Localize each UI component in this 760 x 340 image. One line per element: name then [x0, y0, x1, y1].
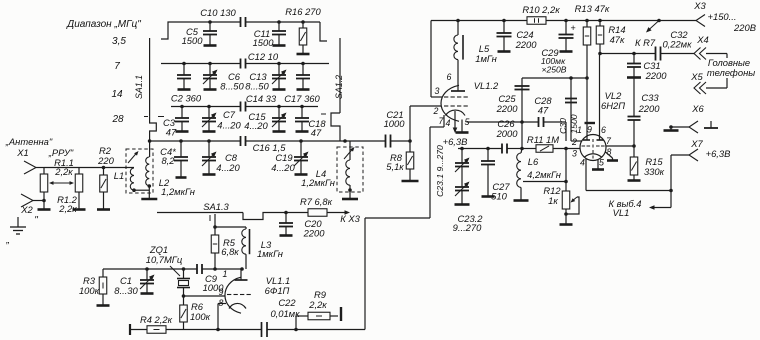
svg-text:510: 510 — [491, 191, 507, 202]
svg-text:47к: 47к — [610, 34, 625, 45]
svg-text:X1: X1 — [16, 147, 28, 158]
svg-text:К R7: К R7 — [635, 37, 656, 48]
svg-text:SA1.2: SA1.2 — [334, 75, 344, 99]
svg-text:2200: 2200 — [638, 103, 661, 114]
svg-text:+150...: +150... — [708, 11, 737, 22]
svg-text:Х5: Х5 — [690, 71, 703, 82]
svg-text:телефоны: телефоны — [707, 67, 755, 78]
svg-text:R4 2,2к: R4 2,2к — [140, 314, 173, 325]
svg-text:47: 47 — [538, 105, 549, 116]
svg-text:6Ф1П: 6Ф1П — [265, 285, 290, 296]
svg-text:R7 6,8к: R7 6,8к — [300, 196, 333, 207]
svg-text:Х6: Х6 — [691, 103, 704, 114]
svg-text:47: 47 — [166, 127, 177, 138]
svg-text:8: 8 — [219, 298, 224, 308]
svg-text:28: 28 — [111, 114, 124, 125]
svg-text:4: 4 — [446, 118, 451, 128]
svg-text:10,7МГц: 10,7МГц — [146, 254, 183, 265]
svg-text:2200: 2200 — [645, 70, 668, 81]
svg-text:SA1.3: SA1.3 — [203, 201, 229, 212]
svg-text:100к: 100к — [190, 311, 211, 322]
svg-text:C23.1 9...270: C23.1 9...270 — [435, 145, 445, 197]
svg-text:8...30: 8...30 — [114, 285, 138, 296]
svg-text:": " — [34, 215, 38, 226]
svg-text:220В: 220В — [733, 22, 756, 33]
svg-text:R11 1М: R11 1М — [527, 134, 559, 145]
svg-text:4: 4 — [580, 158, 585, 168]
svg-text:R16 270: R16 270 — [285, 6, 321, 17]
svg-text:1000: 1000 — [384, 118, 406, 129]
svg-text:1,2мкГн: 1,2мкГн — [161, 186, 195, 197]
svg-text:К X3: К X3 — [340, 213, 360, 224]
svg-text:Диапазон „МГц": Диапазон „МГц" — [66, 19, 141, 30]
svg-text:+6,3В: +6,3В — [443, 136, 468, 147]
svg-text:C22: C22 — [278, 297, 296, 308]
svg-text:2,2к: 2,2к — [308, 299, 327, 310]
svg-text:8...50: 8...50 — [245, 81, 269, 92]
svg-text:C12 10: C12 10 — [248, 51, 279, 62]
svg-text:1500: 1500 — [182, 35, 204, 46]
svg-text:2: 2 — [571, 137, 577, 147]
svg-text:Х3: Х3 — [693, 0, 706, 11]
svg-text:9: 9 — [587, 125, 592, 135]
svg-text:VL1.2: VL1.2 — [474, 80, 499, 91]
svg-text:Х7: Х7 — [690, 138, 703, 149]
svg-text:4,2мкГн: 4,2мкГн — [527, 169, 561, 180]
svg-text:4...20: 4...20 — [271, 162, 295, 173]
svg-text:2200: 2200 — [496, 103, 519, 114]
svg-text:2,2к: 2,2к — [58, 203, 77, 214]
svg-text:C14 33: C14 33 — [246, 93, 277, 104]
svg-text:1500: 1500 — [253, 37, 275, 48]
svg-text:R10 2,2к: R10 2,2к — [522, 4, 560, 15]
svg-text:Х4: Х4 — [696, 34, 708, 45]
svg-text:„Антенна": „Антенна" — [5, 136, 53, 147]
svg-text:5,1к: 5,1к — [386, 161, 404, 172]
svg-text:C10 130: C10 130 — [200, 7, 236, 18]
svg-text:9: 9 — [219, 287, 224, 297]
svg-text:C17 360: C17 360 — [284, 93, 320, 104]
svg-text:4...20: 4...20 — [244, 120, 268, 131]
svg-text:×250В: ×250В — [541, 65, 566, 75]
svg-text:14: 14 — [111, 89, 123, 100]
svg-text:2: 2 — [433, 106, 439, 116]
svg-text:C7: C7 — [223, 109, 236, 120]
svg-text:1к: 1к — [548, 195, 558, 206]
svg-text:9...270: 9...270 — [453, 222, 482, 233]
svg-text:6: 6 — [601, 125, 606, 135]
svg-text:47: 47 — [311, 127, 322, 138]
svg-text:+6,3В: +6,3В — [706, 148, 731, 159]
svg-text:1: 1 — [577, 125, 582, 135]
svg-text:6: 6 — [447, 72, 452, 82]
svg-text:2000: 2000 — [496, 128, 519, 139]
svg-text:7: 7 — [114, 61, 120, 72]
svg-text:C33: C33 — [641, 92, 659, 103]
svg-text:3: 3 — [572, 149, 577, 159]
svg-text:330к: 330к — [644, 166, 665, 177]
svg-text:3,5: 3,5 — [112, 36, 126, 47]
svg-text:SA1.1: SA1.1 — [134, 75, 144, 99]
svg-text:„: „ — [5, 235, 9, 246]
svg-text:L1: L1 — [114, 170, 124, 181]
svg-text:6,8к: 6,8к — [221, 246, 239, 257]
svg-text:4...20: 4...20 — [216, 162, 240, 173]
svg-text:8...50: 8...50 — [220, 81, 244, 92]
svg-text:1,2мкГн: 1,2мкГн — [301, 177, 335, 188]
svg-text:1: 1 — [223, 269, 228, 279]
svg-text:3: 3 — [435, 86, 440, 96]
svg-text:R13 47к: R13 47к — [575, 3, 610, 14]
svg-text:2200: 2200 — [515, 39, 538, 50]
svg-text:1мкГн: 1мкГн — [257, 248, 283, 259]
svg-text:6Н2П: 6Н2П — [601, 100, 625, 111]
svg-text:C2 360: C2 360 — [171, 93, 202, 104]
svg-text:100к: 100к — [79, 285, 100, 296]
svg-text:2200: 2200 — [303, 228, 326, 239]
svg-text:0,22мк: 0,22мк — [662, 39, 692, 50]
svg-text:+: + — [570, 23, 575, 33]
svg-text:2,2к: 2,2к — [54, 166, 73, 177]
svg-text:L6: L6 — [528, 156, 539, 167]
svg-text:1мГн: 1мГн — [475, 53, 497, 64]
svg-text:220: 220 — [97, 155, 114, 166]
svg-text:VL1: VL1 — [613, 207, 630, 218]
svg-text:8,2: 8,2 — [161, 155, 175, 166]
svg-text:X2: X2 — [20, 204, 33, 215]
svg-text:5: 5 — [599, 158, 604, 168]
svg-text:4...20: 4...20 — [217, 120, 241, 131]
